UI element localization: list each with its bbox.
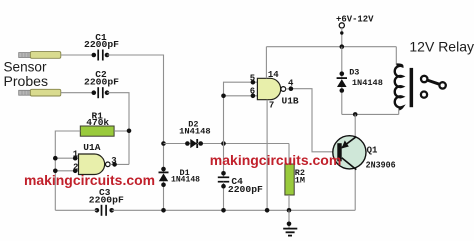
label C4 value <box>228 176 263 195</box>
wire U1B pin7 to ground rail <box>266 100 268 211</box>
wire C3 left lead <box>55 209 97 211</box>
relay core bar <box>410 68 414 107</box>
wire node B riser to U1B inputs <box>224 82 258 143</box>
label Sensor Probes <box>4 59 49 89</box>
svg-text:1: 1 <box>73 149 79 159</box>
label Q1 value <box>366 146 396 171</box>
sensor probe P1 <box>19 52 61 59</box>
junction dot pin7 on ground rail <box>265 208 270 213</box>
relay contact pole <box>439 82 445 88</box>
wire U1A pin1 <box>55 157 78 159</box>
wire C1 right to node D2-anode column <box>107 55 164 144</box>
transistor Q1 (PNP 2N3906) <box>333 136 366 170</box>
diode D1 <box>159 144 169 211</box>
relay contact NO <box>421 92 427 98</box>
label R2 value <box>295 168 305 186</box>
relay contact common <box>421 76 427 82</box>
svg-text:makingcircuits.com: makingcircuits.com <box>24 172 155 188</box>
svg-text:2200pF: 2200pF <box>89 194 124 205</box>
svg-text:2200pF: 2200pF <box>228 184 263 195</box>
svg-text:U1B: U1B <box>282 95 299 106</box>
junction +V on rail <box>340 44 345 49</box>
svg-text:Q1: Q1 <box>367 146 378 156</box>
svg-text:5: 5 <box>250 73 255 83</box>
svg-text:6: 6 <box>250 87 255 97</box>
op-amp gate U1B (NAND) <box>257 78 285 99</box>
svg-text:2200pF: 2200pF <box>84 39 119 50</box>
svg-text:Probes: Probes <box>4 74 49 89</box>
svg-text:makingcircuits.com: makingcircuits.com <box>210 152 341 168</box>
wire U1B pin4 output to Q1 base <box>286 89 338 152</box>
capacitor C1 <box>98 50 103 61</box>
diode D3 <box>337 47 347 115</box>
wire +V rail (top) <box>266 46 396 48</box>
svg-text:7: 7 <box>269 101 274 111</box>
wire U1A pin3 output <box>110 163 129 165</box>
junction R1 right / C2 / pin3 <box>127 129 132 134</box>
wire C2 right to pin3 column <box>107 93 129 165</box>
label C3 value <box>89 187 124 206</box>
junction Q1 emitter on relay bottom wire <box>353 112 358 117</box>
label D2 value <box>179 120 211 137</box>
wire probe P1 to C1 <box>61 54 94 56</box>
ground symbol <box>283 210 297 235</box>
wire U1B pin6 <box>224 95 258 97</box>
label D3 value <box>349 68 383 88</box>
wire R1 right to junction <box>114 130 129 132</box>
capacitor C2 <box>98 87 103 98</box>
relay armature <box>427 80 440 84</box>
resistor R2 <box>285 144 294 211</box>
diode D2 <box>164 139 290 148</box>
junction dot pin3 <box>112 162 117 167</box>
wire Q1 collector drop <box>354 168 356 210</box>
capacitor C4 <box>218 144 229 211</box>
wire U1B pin14 to +V rail <box>265 47 267 79</box>
junction dot D1 on ground rail <box>161 208 166 213</box>
label C2 value <box>84 69 119 87</box>
svg-text:1M: 1M <box>295 175 305 185</box>
junction dots C3 leads <box>95 208 114 213</box>
svg-text:U1A: U1A <box>83 142 100 153</box>
power terminal +6V-12V <box>336 15 374 47</box>
junction dots U1A input node <box>53 156 77 173</box>
wire Q1 emitter riser <box>354 114 356 138</box>
svg-text:1N4148: 1N4148 <box>352 78 383 88</box>
label D1 value <box>171 168 200 185</box>
wire U1A pin2 <box>55 170 78 172</box>
label R1 value <box>86 110 109 128</box>
wire relay/D3 bottom node <box>342 113 399 115</box>
svg-text:Sensor: Sensor <box>4 59 47 74</box>
svg-text:470k: 470k <box>86 117 109 128</box>
wire probe P2 to C2 <box>61 92 94 94</box>
resistor R1 <box>80 126 114 136</box>
junction dot C4 on ground rail <box>221 208 226 213</box>
sensor probe P2 <box>19 89 61 96</box>
wire R1 left to U1A inputs column <box>55 131 80 210</box>
svg-text:1N4148: 1N4148 <box>171 174 200 184</box>
junction R2 bottom on ground rail <box>287 208 292 213</box>
junction dots C2 leads <box>92 90 110 95</box>
svg-text:1N4148: 1N4148 <box>179 126 211 136</box>
op-amp gate U1A (NAND) <box>79 154 111 175</box>
svg-text:2200pF: 2200pF <box>84 76 119 87</box>
junction C1/D1/D2 node <box>161 141 166 146</box>
junction dots C1 leads <box>92 53 110 58</box>
capacitor C3 <box>102 205 107 216</box>
junction dot pin4 <box>289 86 294 91</box>
svg-text:2N3906: 2N3906 <box>366 161 396 171</box>
node B junction (D2 cathode / C4 / U1B inputs) <box>221 141 226 146</box>
svg-text:14: 14 <box>268 70 279 80</box>
label C1 value <box>84 32 119 50</box>
svg-text:12V Relay: 12V Relay <box>409 39 474 55</box>
svg-text:D3: D3 <box>349 68 359 78</box>
wire ground rail (bottom) <box>112 209 356 211</box>
relay K1 coil <box>395 47 403 115</box>
junction dots U1B inputs <box>221 80 255 98</box>
